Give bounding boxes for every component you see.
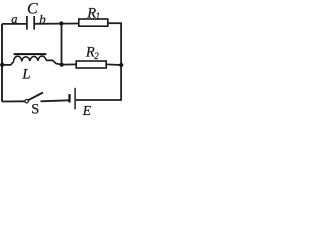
wire top-left segment (left wire to capacitor) (2, 23, 26, 25)
svg-text:S: S (31, 101, 39, 117)
svg-text:2: 2 (94, 51, 99, 61)
wire bottom-left to switch (2, 100, 25, 102)
svg-text:a: a (11, 12, 17, 26)
wire middle dot to R2 (62, 63, 76, 65)
resistor R2 (76, 61, 106, 68)
switch S blade (28, 93, 43, 101)
svg-text:C: C (27, 0, 38, 17)
capacitor C right plate (33, 16, 35, 30)
node dot left (0, 63, 4, 67)
wire battery to bottom-right (76, 99, 122, 101)
wire left vertical (1, 24, 3, 102)
wire switch stub to battery (41, 100, 69, 101)
svg-text:E: E (82, 103, 92, 118)
resistor R1 (79, 19, 108, 26)
wire right vertical (120, 23, 122, 100)
node dot middle (60, 63, 64, 67)
wire R2 to right dot (106, 63, 121, 66)
wire middle vertical (61, 24, 63, 65)
battery E short thick plate (68, 94, 70, 102)
inductor L core bar (14, 53, 47, 55)
wire inductor to middle dot (46, 60, 62, 64)
wire left dot to inductor (2, 62, 14, 65)
svg-text:L: L (21, 66, 30, 82)
battery E long thin plate (74, 88, 76, 110)
svg-text:1: 1 (96, 11, 101, 21)
wire capacitor to junction and on to R1 (34, 23, 79, 25)
node junction dot top (59, 21, 63, 25)
capacitor C left plate (26, 16, 28, 30)
wire R1 to top-right corner (108, 22, 122, 24)
node dot right (119, 63, 123, 67)
inductor L coil (4 loops) (14, 56, 47, 62)
switch S pivot circle (25, 100, 28, 103)
